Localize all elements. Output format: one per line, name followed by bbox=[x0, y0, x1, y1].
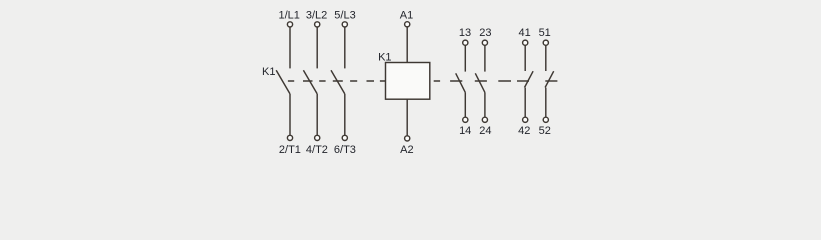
svg-text:41: 41 bbox=[518, 27, 530, 39]
svg-text:2/T1: 2/T1 bbox=[279, 144, 301, 156]
svg-text:3/L2: 3/L2 bbox=[306, 9, 327, 21]
svg-text:23: 23 bbox=[479, 27, 491, 39]
svg-text:5/L3: 5/L3 bbox=[334, 9, 355, 21]
svg-text:A1: A1 bbox=[400, 9, 413, 21]
svg-text:K1: K1 bbox=[378, 52, 391, 64]
svg-text:24: 24 bbox=[479, 125, 491, 137]
svg-text:K1: K1 bbox=[262, 66, 275, 78]
svg-text:52: 52 bbox=[539, 125, 551, 137]
svg-text:6/T3: 6/T3 bbox=[334, 144, 356, 156]
svg-text:1/L1: 1/L1 bbox=[278, 9, 299, 21]
svg-text:A2: A2 bbox=[400, 144, 413, 156]
svg-text:14: 14 bbox=[459, 125, 471, 137]
svg-text:13: 13 bbox=[459, 27, 471, 39]
svg-text:42: 42 bbox=[518, 125, 530, 137]
svg-text:51: 51 bbox=[539, 27, 551, 39]
svg-text:4/T2: 4/T2 bbox=[306, 144, 328, 156]
